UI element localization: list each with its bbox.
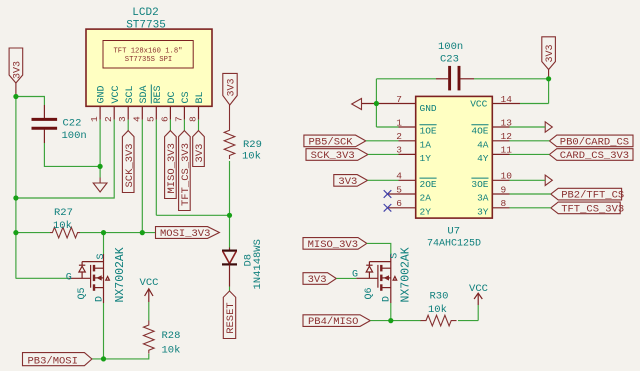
svg-text:9: 9 [501,184,507,195]
svg-text:7: 7 [396,94,402,105]
svg-text:G: G [352,270,358,281]
svg-text:MOSI_3V3: MOSI_3V3 [160,228,210,240]
svg-text:1N4148WS: 1N4148WS [252,239,264,289]
svg-text:4A: 4A [477,139,489,150]
svg-text:GND: GND [97,85,108,103]
svg-text:10k: 10k [428,304,447,316]
svg-text:R27: R27 [54,207,73,219]
svg-text:10k: 10k [162,345,181,357]
svg-text:3V3: 3V3 [194,144,206,163]
svg-text:3V3: 3V3 [338,176,357,188]
svg-text:8: 8 [501,198,507,209]
svg-text:1: 1 [89,116,100,122]
svg-text:PB4/MISO: PB4/MISO [308,316,358,328]
svg-text:PB5/SCK: PB5/SCK [309,137,354,149]
svg-text:3A: 3A [477,193,489,204]
svg-text:8: 8 [188,116,199,122]
svg-text:4OE: 4OE [471,126,488,137]
svg-text:C22: C22 [63,118,82,130]
svg-text:3Y: 3Y [477,206,489,217]
svg-text:5: 5 [396,184,402,195]
svg-text:100n: 100n [62,130,87,142]
svg-text:1Y: 1Y [420,153,432,164]
svg-text:PB2/TFT_CS: PB2/TFT_CS [561,190,624,202]
svg-text:2OE: 2OE [420,179,437,190]
svg-text:VCC: VCC [111,85,122,103]
svg-text:3: 3 [117,116,128,122]
svg-text:14: 14 [501,94,513,105]
svg-text:NX7002AK: NX7002AK [114,247,127,302]
svg-text:3V3: 3V3 [226,78,237,96]
svg-text:TFT_CS_3V3: TFT_CS_3V3 [180,143,192,206]
svg-text:ST7735S SPI: ST7735S SPI [125,56,172,64]
svg-text:LCD2: LCD2 [132,7,158,19]
svg-text:SDA: SDA [139,85,150,103]
svg-text:PB0/CARD_CS: PB0/CARD_CS [560,137,629,149]
svg-text:GND: GND [420,103,437,114]
svg-text:PB3/MOSI: PB3/MOSI [28,355,78,367]
svg-text:CS: CS [181,91,192,103]
svg-text:R30: R30 [430,291,449,303]
svg-text:2: 2 [103,116,114,122]
svg-text:RES: RES [153,85,164,103]
svg-text:SCK_3V3: SCK_3V3 [311,150,355,162]
svg-text:MISO_3V3: MISO_3V3 [166,143,178,193]
svg-text:3V3: 3V3 [13,61,24,79]
svg-text:10k: 10k [53,220,72,232]
svg-text:5: 5 [145,116,156,122]
svg-text:ST7735: ST7735 [126,19,166,31]
svg-text:C23: C23 [440,54,459,66]
svg-text:7: 7 [173,116,184,122]
svg-text:3V3: 3V3 [308,274,327,286]
svg-text:RESET: RESET [225,302,237,334]
svg-text:Q6: Q6 [364,287,375,299]
svg-text:DC: DC [167,91,178,103]
svg-text:D: D [382,296,393,302]
svg-text:CARD_CS_3V3: CARD_CS_3V3 [560,150,629,162]
svg-text:Q5: Q5 [77,287,88,299]
svg-text:D: D [94,296,105,302]
svg-text:NX7002AK: NX7002AK [399,247,412,302]
svg-text:2A: 2A [420,193,432,204]
svg-text:6: 6 [396,198,402,209]
svg-text:2Y: 2Y [420,206,432,217]
svg-text:74AHC125D: 74AHC125D [427,238,481,249]
svg-text:R29: R29 [243,139,262,151]
svg-text:SCL: SCL [125,85,136,103]
svg-text:VCC: VCC [140,277,159,289]
svg-text:6: 6 [159,116,170,122]
svg-text:S: S [96,253,107,259]
svg-text:U7: U7 [447,225,460,237]
svg-text:3V3: 3V3 [545,44,556,62]
svg-text:TFT 128x160 1.8": TFT 128x160 1.8" [113,48,182,56]
svg-text:4Y: 4Y [477,153,489,164]
svg-text:MISO_3V3: MISO_3V3 [308,239,358,251]
svg-text:3OE: 3OE [471,179,488,190]
svg-text:R28: R28 [162,330,181,342]
svg-text:G: G [66,273,72,284]
svg-text:10k: 10k [242,151,261,163]
svg-text:VCC: VCC [470,99,487,110]
svg-text:TFT_CS_3V3: TFT_CS_3V3 [561,204,624,216]
svg-text:100n: 100n [438,41,463,53]
svg-text:4: 4 [131,116,142,122]
svg-text:1A: 1A [420,139,432,150]
svg-text:1OE: 1OE [420,126,437,137]
svg-text:BL: BL [195,91,206,103]
svg-text:SCK_3V3: SCK_3V3 [124,143,136,187]
